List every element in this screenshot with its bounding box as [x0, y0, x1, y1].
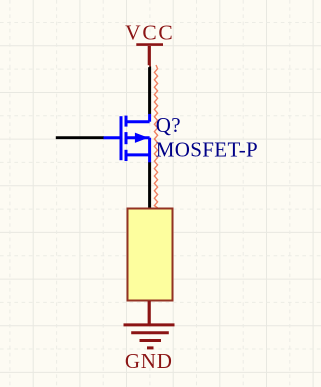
power port VCC — [136, 45, 163, 67]
transistor Q? MOSFET-P — [104, 114, 150, 163]
drain pin lead — [148, 114, 151, 122]
svg-text:MOSFET-P: MOSFET-P — [156, 137, 258, 161]
wire VCC to Q1 drain — [148, 67, 151, 115]
bulk arrow (P-channel) — [135, 133, 149, 143]
svg-text:Q?: Q? — [156, 113, 181, 137]
channel segment top — [125, 116, 128, 127]
bulk-source tie and source pin lead — [148, 138, 151, 163]
junction notch at VCC pin — [148, 65, 150, 67]
source stub — [126, 153, 150, 156]
svg-text:GND: GND — [125, 349, 173, 373]
gate bar — [120, 116, 123, 160]
bulk stub — [126, 136, 150, 139]
wire Q1 source to component body — [148, 162, 151, 208]
wire gate (to Q1) — [56, 136, 104, 139]
gate pin lead — [104, 136, 120, 139]
ground symbol GND — [124, 301, 175, 348]
drain stub — [126, 120, 150, 123]
component body rectangle — [128, 209, 173, 301]
channel segment bottom — [125, 150, 128, 161]
ERC error squiggle on VCC net — [154, 65, 157, 208]
svg-text:VCC: VCC — [125, 21, 174, 45]
channel segment middle — [125, 132, 128, 144]
